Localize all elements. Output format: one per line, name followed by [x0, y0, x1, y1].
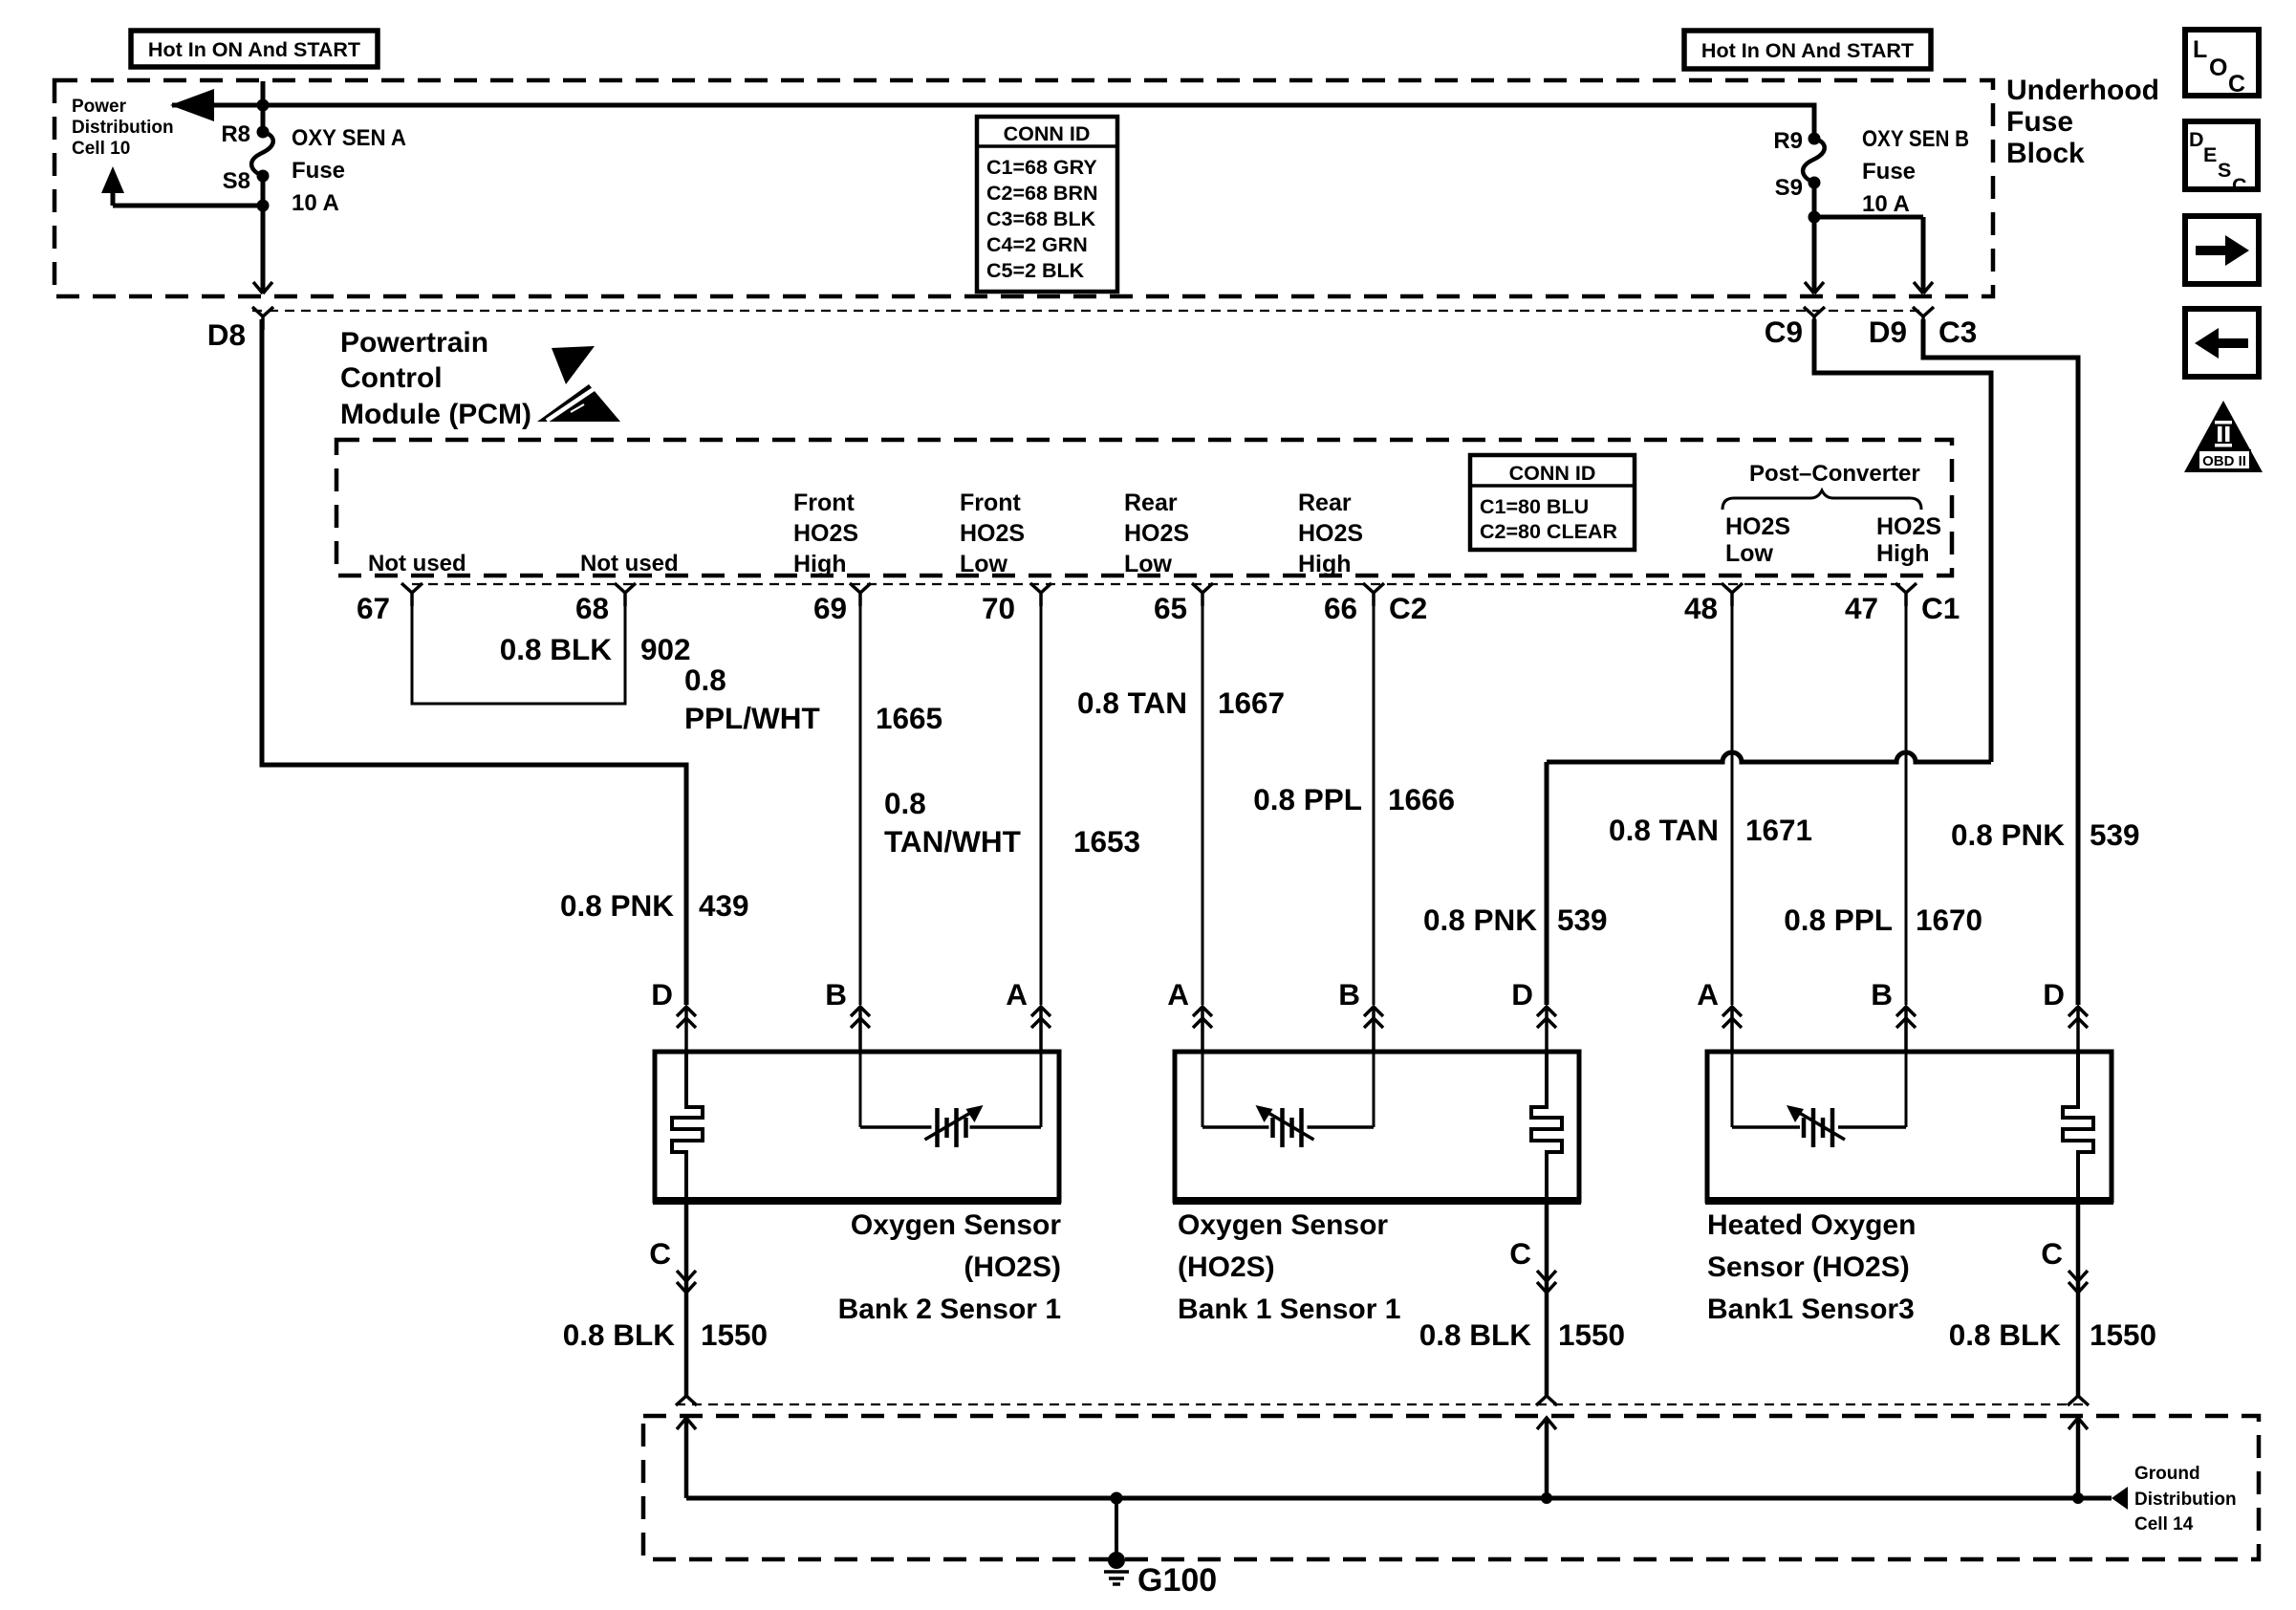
svg-text:0.8 PNK: 0.8 PNK	[1951, 817, 2065, 852]
pin letter A	[1697, 977, 1719, 1012]
svg-text:C3: C3	[1939, 315, 1977, 349]
svg-text:48: 48	[1684, 591, 1718, 625]
wire: PNK 539 (C9 to middle sensor D) with hops	[1547, 319, 1991, 1005]
label: G100	[1137, 1562, 1217, 1599]
wire label: 0.8 BLK 1550 (right)	[1949, 1317, 2156, 1352]
wire label: 0.8 BLK 1550 (middle)	[1419, 1317, 1625, 1352]
svg-text:Sensor (HO2S): Sensor (HO2S)	[1707, 1251, 1910, 1283]
wire label: 0.8 PNK 539 (right)	[1951, 817, 2140, 852]
pin number 69	[813, 591, 847, 625]
fuse: OXY SEN A Fuse 10 A	[251, 126, 273, 212]
pin letter C (x=2174)	[2041, 1236, 2063, 1271]
wire: TAN/WHT 1653 (pin 70 to left sensor A)	[1040, 602, 1043, 1005]
wire: S9 to C9 exit	[1804, 217, 1825, 330]
svg-text:Block: Block	[2006, 138, 2085, 169]
svg-text:1666: 1666	[1388, 782, 1455, 816]
pin number 65	[1154, 591, 1187, 625]
svg-text:C2: C2	[1389, 591, 1427, 625]
node: bus junction at R8 feed	[257, 99, 270, 112]
wire: BLK 1550 (sensor C to ground, x=718)	[677, 1201, 696, 1396]
svg-text:(HO2S): (HO2S)	[1178, 1251, 1275, 1283]
svg-text:Distribution: Distribution	[72, 118, 174, 138]
svg-text:47: 47	[1845, 591, 1878, 625]
wire: TAN 1667 (pin 65 to middle sensor A)	[1202, 602, 1204, 1005]
wire: BLK 1550 (sensor C to ground, x=2174)	[2069, 1201, 2088, 1396]
svg-text:(HO2S): (HO2S)	[964, 1251, 1061, 1283]
connector label C1	[1921, 591, 1960, 625]
power tag: Hot In ON And START (right)	[1684, 31, 1931, 69]
connector C9	[1765, 315, 1803, 349]
pin letter C (x=718)	[649, 1236, 671, 1271]
svg-text:1550: 1550	[701, 1317, 768, 1352]
wire: ignition feed bus (top)	[170, 81, 1814, 139]
svg-text:HO2S: HO2S	[1298, 520, 1363, 547]
wire: PPL 1666 (pin 66 to middle sensor B)	[1373, 602, 1375, 1005]
svg-text:C: C	[649, 1236, 671, 1271]
svg-text:R9: R9	[1773, 128, 1803, 154]
svg-text:HO2S: HO2S	[1124, 520, 1189, 547]
svg-text:CONN ID: CONN ID	[1509, 462, 1596, 485]
wire: PNK 439 (D8 to left sensor D)	[262, 319, 686, 1005]
icon: ESD sensitive device warning	[537, 346, 620, 422]
pin 48 connector	[1722, 583, 1743, 606]
svg-text:O: O	[2209, 54, 2227, 81]
svg-text:1550: 1550	[1558, 1317, 1625, 1352]
icon: DESC box	[2185, 121, 2258, 197]
svg-text:HO2S: HO2S	[793, 520, 858, 547]
svg-text:C2=68 BRN: C2=68 BRN	[986, 182, 1098, 205]
svg-text:D: D	[1511, 977, 1533, 1012]
pin 66 connector	[1363, 583, 1384, 606]
svg-text:R8: R8	[221, 121, 250, 147]
pin label: Front HO2S High	[793, 490, 858, 577]
svg-text:539: 539	[2090, 817, 2140, 852]
label: Ground Distribution Cell 14	[2134, 1464, 2237, 1534]
wire label: 0.8 TAN 1671	[1609, 813, 1812, 847]
wire label: 0.8 PNK 439	[560, 888, 749, 923]
pin 68 connector	[615, 583, 636, 606]
pin label S8	[223, 168, 250, 194]
wire label: 0.8 TAN/WHT 1653	[884, 786, 1140, 859]
svg-text:S8: S8	[223, 168, 250, 194]
svg-text:1550: 1550	[2090, 1317, 2156, 1352]
svg-text:Fuse: Fuse	[292, 158, 345, 184]
svg-text:Oxygen Sensor: Oxygen Sensor	[851, 1209, 1061, 1241]
svg-text:Module (PCM): Module (PCM)	[340, 399, 531, 430]
svg-text:0.8 PPL: 0.8 PPL	[1784, 903, 1893, 937]
svg-text:High: High	[793, 551, 847, 577]
pin label: Not used (67)	[368, 551, 466, 577]
svg-text:10 A: 10 A	[1862, 191, 1910, 217]
svg-text:G100: G100	[1137, 1562, 1217, 1599]
svg-text:1670: 1670	[1916, 903, 1982, 937]
label: Power Distribution Cell 10	[72, 97, 174, 159]
svg-text:539: 539	[1557, 903, 1608, 937]
svg-text:C1: C1	[1921, 591, 1960, 625]
node: bus junction (middle sensor ground)	[1541, 1492, 1552, 1504]
svg-text:69: 69	[813, 591, 847, 625]
svg-text:A: A	[1006, 977, 1028, 1012]
svg-text:0.8 PNK: 0.8 PNK	[1423, 903, 1537, 937]
svg-text:0.8 PNK: 0.8 PNK	[560, 888, 674, 923]
svg-text:L: L	[2193, 36, 2207, 63]
svg-text:PPL/WHT: PPL/WHT	[684, 701, 820, 735]
wire: to Power Distribution (arrow up)	[101, 166, 263, 206]
pin B connector (x=900)	[851, 1007, 870, 1052]
svg-text:65: 65	[1154, 591, 1187, 625]
wire label: 0.8 BLK 1550 (left)	[563, 1317, 768, 1352]
pin 65 connector	[1192, 583, 1213, 606]
pin number 68	[575, 591, 609, 625]
svg-text:B: B	[1338, 977, 1360, 1012]
svg-text:Oxygen Sensor: Oxygen Sensor	[1178, 1209, 1388, 1241]
pin label: HO2S High (47)	[1876, 513, 1941, 567]
connector D8	[207, 317, 246, 352]
svg-text:0.8: 0.8	[684, 663, 726, 697]
pin letter B	[1871, 977, 1893, 1012]
wire label: 0.8 PPL 1670	[1784, 903, 1982, 937]
svg-text:C3=68 BLK: C3=68 BLK	[986, 207, 1096, 230]
pin letter B	[1338, 977, 1360, 1012]
svg-text:0.8 BLK: 0.8 BLK	[563, 1317, 676, 1352]
svg-text:0.8 BLK: 0.8 BLK	[500, 632, 613, 666]
wire: ground bus	[686, 1487, 2128, 1510]
pin number 70	[982, 591, 1015, 625]
wire: PNK 539 (D9/C3 to right sensor D)	[1923, 319, 2078, 1005]
svg-text:C1=80 BLU: C1=80 BLU	[1480, 495, 1589, 518]
pin B connector (x=1437)	[1364, 1007, 1383, 1052]
pin A connector (x=1089)	[1031, 1007, 1051, 1052]
wire: PPL 1670 (pin 47 to right sensor B)	[1905, 602, 1908, 1005]
pin 70 connector	[1030, 583, 1051, 606]
svg-text:HO2S: HO2S	[1876, 513, 1941, 540]
svg-text:66: 66	[1324, 591, 1357, 625]
svg-text:Power: Power	[72, 97, 127, 117]
svg-text:Hot In ON And START: Hot In ON And START	[1701, 39, 1914, 62]
svg-text:D: D	[2189, 128, 2204, 151]
svg-text:D8: D8	[207, 317, 246, 352]
pin label: HO2S Low (48)	[1725, 513, 1790, 567]
svg-text:Cell 14: Cell 14	[2134, 1514, 2194, 1534]
connector D9	[1869, 315, 1907, 349]
label: OXY SEN B Fuse 10 A	[1862, 126, 1969, 217]
icon: forward arrow box	[2185, 216, 2259, 284]
svg-text:0.8 BLK: 0.8 BLK	[1419, 1317, 1532, 1352]
wire label: 0.8 PNK 539 (middle)	[1423, 903, 1608, 937]
svg-text:439: 439	[699, 888, 749, 923]
svg-text:Hot In ON And START: Hot In ON And START	[148, 38, 360, 61]
svg-text:Powertrain: Powertrain	[340, 327, 488, 359]
oxygen sensor B2S1 box	[653, 1052, 1061, 1201]
svg-text:Cell 10: Cell 10	[72, 139, 130, 159]
svg-text:Post–Converter: Post–Converter	[1749, 461, 1920, 487]
svg-text:CONN ID: CONN ID	[1004, 122, 1091, 145]
svg-text:C5=2 BLK: C5=2 BLK	[986, 259, 1085, 282]
svg-text:Rear: Rear	[1298, 490, 1352, 516]
svg-text:High: High	[1876, 540, 1930, 567]
svg-text:0.8 TAN: 0.8 TAN	[1077, 685, 1187, 720]
connector face line (fuse block bottom, thin dashed)	[252, 310, 1923, 312]
svg-text:Low: Low	[1124, 551, 1173, 577]
svg-text:68: 68	[575, 591, 609, 625]
svg-text:Bank 1 Sensor 1: Bank 1 Sensor 1	[1178, 1294, 1400, 1325]
svg-text:Ground: Ground	[2134, 1464, 2200, 1484]
svg-text:0.8: 0.8	[884, 786, 926, 820]
svg-text:Distribution: Distribution	[2134, 1490, 2237, 1510]
svg-text:902: 902	[640, 632, 691, 666]
table: CONN ID (fuse block connectors)	[977, 117, 1117, 292]
svg-text:Control: Control	[340, 362, 443, 394]
heater element (right sensor)	[2063, 1052, 2093, 1201]
label: OXY SEN A Fuse 10 A	[292, 125, 406, 216]
svg-text:High: High	[1298, 551, 1352, 577]
pin label: Rear HO2S Low	[1124, 490, 1189, 577]
svg-text:67: 67	[357, 591, 390, 625]
svg-text:OXY SEN B: OXY SEN B	[1862, 126, 1969, 152]
svg-text:Low: Low	[960, 551, 1008, 577]
icon: LOC box	[2185, 30, 2259, 98]
ground G100	[1104, 1492, 1129, 1585]
oxygen sensor B1S1 box	[1173, 1052, 1581, 1201]
svg-text:S9: S9	[1775, 175, 1803, 201]
pin 69 connector	[850, 583, 871, 606]
svg-text:D: D	[2043, 977, 2065, 1012]
svg-text:D: D	[651, 977, 673, 1012]
pin number 47	[1845, 591, 1878, 625]
svg-text:D9: D9	[1869, 315, 1907, 349]
svg-text:OBD II: OBD II	[2202, 453, 2246, 469]
wire: PPL/WHT 1665 (pin 69 to left sensor B)	[859, 602, 862, 1005]
svg-text:C9: C9	[1765, 315, 1803, 349]
pin 47 connector	[1895, 583, 1917, 606]
label: Post-Converter with brace	[1722, 461, 1921, 510]
node: bus junction (right sensor ground)	[2072, 1492, 2084, 1504]
wire: 0.8 BLK 902 loop (pins 67-68)	[412, 602, 625, 704]
wire: TAN 1671 (pin 48 to right sensor A)	[1731, 602, 1734, 1005]
ground box entry connector (x=2174)	[2068, 1396, 2089, 1498]
pin B connector (x=1994)	[1896, 1007, 1916, 1052]
svg-text:0.8 TAN: 0.8 TAN	[1609, 813, 1719, 847]
svg-text:1665: 1665	[876, 701, 942, 735]
pin A connector (x=1258)	[1193, 1007, 1212, 1052]
pin 67 connector	[401, 583, 422, 606]
wire: S9 branch to D9 exit	[1814, 217, 1934, 330]
sensor element (right sensor, variable cell with arrow)	[1732, 1052, 1906, 1147]
pin letter D	[2043, 977, 2065, 1012]
pin letter B	[825, 977, 847, 1012]
svg-text:C4=2 GRN: C4=2 GRN	[986, 233, 1088, 256]
svg-text:S: S	[2218, 159, 2231, 182]
svg-text:C: C	[1509, 1236, 1531, 1271]
svg-text:C: C	[2041, 1236, 2063, 1271]
svg-text:Low: Low	[1725, 540, 1774, 567]
pin A connector (x=1812)	[1722, 1007, 1742, 1052]
svg-text:1671: 1671	[1745, 813, 1812, 847]
sensor element (left sensor, variable cell with arrow)	[860, 1052, 1041, 1147]
label: Heated Oxygen Sensor (HO2S) Bank1 Sensor3	[1707, 1209, 1916, 1325]
ground box entry connector (x=718)	[676, 1396, 697, 1498]
svg-text:C1=68 GRY: C1=68 GRY	[986, 156, 1097, 179]
label: Oxygen Sensor (HO2S) Bank 2 Sensor 1	[838, 1209, 1062, 1325]
svg-text:B: B	[1871, 977, 1893, 1012]
svg-text:B: B	[825, 977, 847, 1012]
pin label: Not used (68)	[580, 551, 679, 577]
wire label: 0.8 TAN 1667	[1077, 685, 1285, 720]
pin number 48	[1684, 591, 1718, 625]
pin letter C (x=1618)	[1509, 1236, 1531, 1271]
power tag: Hot In ON And START (left)	[131, 31, 378, 67]
PCM box (dashed)	[336, 440, 1952, 576]
connector face line (ground, thin dashed)	[676, 1403, 2090, 1405]
icon: OBD II triangle	[2184, 401, 2263, 472]
svg-text:OXY SEN A: OXY SEN A	[292, 125, 406, 151]
svg-text:Bank 2 Sensor 1: Bank 2 Sensor 1	[838, 1294, 1061, 1325]
pin letter D	[651, 977, 673, 1012]
label: Underhood Fuse Block	[2006, 75, 2159, 169]
svg-text:E: E	[2203, 143, 2217, 166]
svg-text:Not used: Not used	[368, 551, 466, 577]
svg-text:HO2S: HO2S	[960, 520, 1025, 547]
svg-text:TAN/WHT: TAN/WHT	[884, 824, 1021, 859]
wire: S8 to D8 exit	[252, 206, 273, 330]
pin label S9	[1775, 175, 1803, 201]
svg-text:Not used: Not used	[580, 551, 679, 577]
heater element (left sensor)	[672, 1052, 703, 1201]
sensor element (middle sensor, variable cell with arrow)	[1202, 1052, 1374, 1147]
Underhood Fuse Block box (dashed)	[54, 80, 1993, 296]
svg-text:Fuse: Fuse	[1862, 159, 1916, 185]
svg-text:A: A	[1167, 977, 1189, 1012]
connector face line (PCM bottom, thin dashed)	[412, 583, 1906, 585]
pin label R9	[1773, 128, 1803, 154]
pin number 67	[357, 591, 390, 625]
connector C3	[1939, 315, 1977, 349]
svg-text:HO2S: HO2S	[1725, 513, 1790, 540]
pin D connector (x=718)	[677, 1007, 696, 1052]
pin D connector (x=2174)	[2069, 1007, 2088, 1052]
svg-text:Heated Oxygen: Heated Oxygen	[1707, 1209, 1916, 1241]
heater element (middle sensor)	[1531, 1052, 1562, 1201]
pin letter A	[1167, 977, 1189, 1012]
svg-text:70: 70	[982, 591, 1015, 625]
Ground Distribution box (dashed)	[643, 1416, 2259, 1559]
svg-text:Front: Front	[960, 490, 1022, 516]
pin label R8	[221, 121, 250, 147]
svg-text:0.8 BLK: 0.8 BLK	[1949, 1317, 2062, 1352]
icon: back arrow box	[2185, 309, 2259, 377]
ground box entry connector (x=1618)	[1536, 1396, 1557, 1498]
pin label: Rear HO2S High	[1298, 490, 1363, 577]
pin letter A	[1006, 977, 1028, 1012]
svg-text:Fuse: Fuse	[2006, 106, 2073, 138]
pin number 66	[1324, 591, 1357, 625]
label: Powertrain Control Module (PCM)	[340, 327, 531, 430]
svg-text:C: C	[2228, 71, 2245, 98]
table: CONN ID (PCM connectors)	[1470, 455, 1635, 550]
svg-text:Underhood: Underhood	[2006, 75, 2159, 106]
wire label: 0.8 PPL 1666	[1253, 782, 1455, 816]
connector label C2	[1389, 591, 1427, 625]
wire: BLK 1550 (sensor C to ground, x=1618)	[1537, 1201, 1556, 1396]
label: Oxygen Sensor (HO2S) Bank 1 Sensor 1	[1178, 1209, 1400, 1325]
svg-text:Rear: Rear	[1124, 490, 1178, 516]
pin D connector (x=1618)	[1537, 1007, 1556, 1052]
svg-text:0.8 PPL: 0.8 PPL	[1253, 782, 1362, 816]
svg-text:Bank1 Sensor3: Bank1 Sensor3	[1707, 1294, 1915, 1325]
pin label: Front HO2S Low	[960, 490, 1025, 577]
svg-text:A: A	[1697, 977, 1719, 1012]
heated oxygen sensor B1S3 box	[1705, 1052, 2113, 1201]
wire label: 0.8 BLK 902	[500, 632, 691, 666]
wire label: 0.8 PPL/WHT 1665	[684, 663, 942, 735]
svg-text:1667: 1667	[1218, 685, 1285, 720]
svg-text:Front: Front	[793, 490, 856, 516]
svg-text:1653: 1653	[1073, 824, 1140, 859]
svg-text:C: C	[2232, 174, 2247, 197]
svg-text:10 A: 10 A	[292, 190, 339, 216]
pin letter D	[1511, 977, 1533, 1012]
svg-text:C2=80 CLEAR: C2=80 CLEAR	[1480, 520, 1617, 543]
fuse: OXY SEN B Fuse 10 A	[1803, 133, 1825, 224]
